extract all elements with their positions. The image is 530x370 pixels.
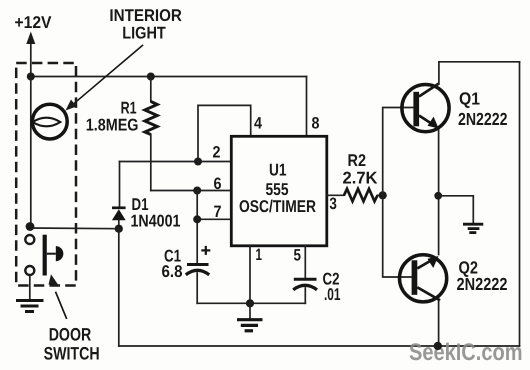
resistor R1 [145, 77, 158, 191]
label C1 plus [201, 246, 210, 255]
door switch cursor arrowhead [49, 274, 60, 286]
resistor R2 [344, 189, 383, 202]
lamp (interior light) [32, 104, 67, 139]
node D1 anode junction [115, 225, 123, 233]
door switch contacts [25, 235, 34, 275]
svg-text:DOOR: DOOR [49, 325, 92, 345]
wire Q1 emitter to Q2 emitter [438, 130, 440, 255]
label INTERIOR LIGHT [109, 6, 181, 43]
svg-text:8: 8 [312, 115, 320, 133]
node Q2 collector rail junction dot top copy [434, 342, 442, 350]
node lamp/switch junction [26, 222, 35, 231]
svg-text:U1: U1 [269, 161, 287, 180]
wire pin6-pin7-C1 vertical [196, 191, 198, 265]
ground emitters [463, 224, 483, 232]
wire pin 3 [327, 194, 344, 196]
label Q1 [458, 89, 508, 130]
node pin6 junction [193, 187, 201, 195]
label C2 value [323, 270, 341, 305]
wire top rail [31, 76, 307, 78]
wire pin 4 branch [198, 105, 251, 161]
capacitor C1 [186, 265, 209, 304]
wire Q2 collector down [438, 302, 440, 347]
svg-text:OSC/TIMER: OSC/TIMER [239, 197, 316, 216]
svg-text:SWITCH: SWITCH [44, 344, 100, 364]
op-amp U1 555 timer box [231, 136, 326, 246]
svg-text:4: 4 [254, 114, 263, 132]
label R2 value [343, 151, 379, 188]
svg-text:1N4001: 1N4001 [131, 212, 181, 231]
dashed enclosure door/lamp [16, 63, 76, 286]
svg-text:R2: R2 [348, 151, 367, 170]
wire switch to ground [29, 275, 31, 300]
wire right rail [519, 62, 521, 346]
wire pin2 to D1 drop [119, 162, 121, 208]
node supply-lamp junction [27, 73, 35, 81]
node Q2 collector rail junction [434, 342, 442, 350]
node R1 top junction [147, 73, 155, 81]
svg-text:6: 6 [214, 175, 222, 193]
svg-text:.01: .01 [324, 285, 341, 304]
wire top right rail [439, 61, 520, 63]
label R1 value [86, 99, 139, 135]
svg-text:LIGHT: LIGHT [122, 24, 166, 43]
svg-text:2N2222: 2N2222 [457, 274, 508, 294]
svg-text:2.7K: 2.7K [343, 169, 379, 188]
wire Q1 collector up [438, 62, 440, 84]
interior light leader arrow [66, 45, 144, 111]
label Q2 [457, 257, 508, 294]
svg-text:1.8MEG: 1.8MEG [86, 116, 139, 135]
wire pin 7 line [197, 218, 231, 220]
svg-text:7: 7 [214, 203, 222, 221]
svg-text:6.8: 6.8 [162, 262, 183, 281]
wire R2 to Q1 base [383, 108, 414, 196]
node pin1 ground junction [246, 299, 254, 307]
svg-text:2: 2 [213, 144, 221, 162]
label C1 value [162, 247, 183, 282]
svg-text:SeekIC.com: SeekIC.com [409, 339, 523, 366]
wire D1 down to bottom rail [118, 229, 120, 346]
diode D1 [112, 208, 126, 229]
node pin2/pin4 junction [194, 158, 202, 166]
svg-text:5: 5 [294, 247, 302, 265]
wire bottom rail [119, 345, 520, 347]
svg-text:1: 1 [256, 246, 263, 264]
wire pin 2 line [120, 161, 232, 163]
svg-text:3: 3 [329, 195, 337, 213]
svg-text:INTERIOR: INTERIOR [109, 6, 181, 25]
wire lamp branch vertical [30, 77, 32, 229]
wire C1-C2 ground link [197, 302, 305, 304]
capacitor C2 [293, 279, 317, 303]
door switch leader line [56, 292, 67, 319]
wire emitter to ground [438, 196, 473, 223]
svg-text:+12V: +12V [15, 13, 53, 32]
node pin7 junction [193, 215, 201, 223]
label DOOR SWITCH [44, 325, 100, 364]
svg-text:2N2222: 2N2222 [458, 109, 508, 129]
+12V arrow [26, 32, 35, 77]
label D1 value [131, 195, 181, 231]
label U1 555 OSC/TIMER [239, 161, 316, 217]
wire pin 6 line [151, 190, 232, 192]
wire R2 to Q2 base [383, 195, 412, 277]
wire pin 1 drop [249, 246, 251, 303]
svg-text:Q1: Q1 [459, 89, 480, 109]
ground door switch [16, 301, 44, 312]
wire pin 8 drop [306, 77, 308, 137]
wire switch to D1 [30, 227, 119, 230]
node R2 output junction [379, 191, 387, 199]
wire pin 5 drop [304, 246, 306, 278]
transistor Q1 [402, 84, 449, 132]
ground 555 [237, 303, 263, 331]
door switch plunger [43, 235, 64, 276]
transistor Q2 [400, 255, 447, 302]
node emitter ground junction [434, 192, 442, 200]
